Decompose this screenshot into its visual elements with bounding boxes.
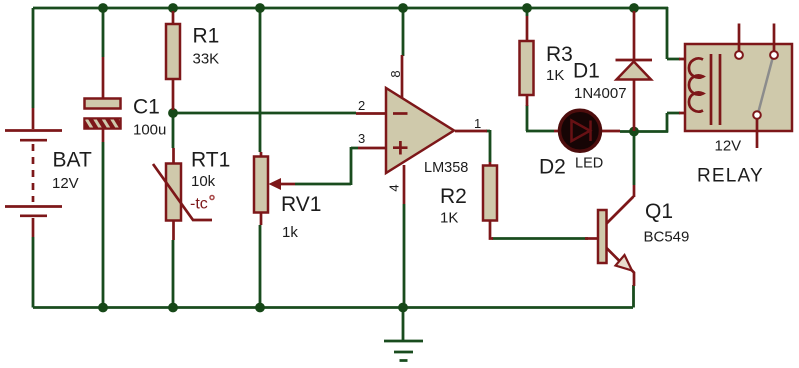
svg-text:LED: LED <box>575 156 603 172</box>
svg-text:Q1: Q1 <box>645 200 673 223</box>
svg-text:1K: 1K <box>440 210 458 227</box>
svg-text:C1: C1 <box>133 96 160 119</box>
svg-text:BAT: BAT <box>53 149 92 172</box>
svg-text:3: 3 <box>358 131 365 146</box>
svg-text:1N4007: 1N4007 <box>574 85 627 102</box>
svg-text:RT1: RT1 <box>191 149 230 172</box>
svg-text:1: 1 <box>474 116 481 131</box>
svg-text:2: 2 <box>358 98 365 113</box>
svg-text:10k: 10k <box>191 173 216 190</box>
svg-text:RV1: RV1 <box>281 193 321 216</box>
svg-text:12V: 12V <box>52 175 79 192</box>
svg-text:4: 4 <box>387 184 402 191</box>
svg-text:12V: 12V <box>715 138 742 155</box>
svg-text:BC549: BC549 <box>644 229 690 246</box>
svg-text:R3: R3 <box>546 43 573 66</box>
svg-text:R1: R1 <box>193 25 220 48</box>
svg-text:-tc: -tc <box>190 196 208 213</box>
svg-text:8: 8 <box>388 70 403 77</box>
svg-text:33K: 33K <box>193 51 220 68</box>
svg-text:100u: 100u <box>133 122 166 139</box>
svg-text:1k: 1k <box>282 224 298 241</box>
svg-text:LM358: LM358 <box>424 160 468 176</box>
svg-text:RELAY: RELAY <box>697 166 764 187</box>
svg-text:D1: D1 <box>573 60 600 83</box>
svg-text:R2: R2 <box>440 185 467 208</box>
svg-text:D2: D2 <box>539 156 566 179</box>
svg-text:1K: 1K <box>546 67 564 84</box>
